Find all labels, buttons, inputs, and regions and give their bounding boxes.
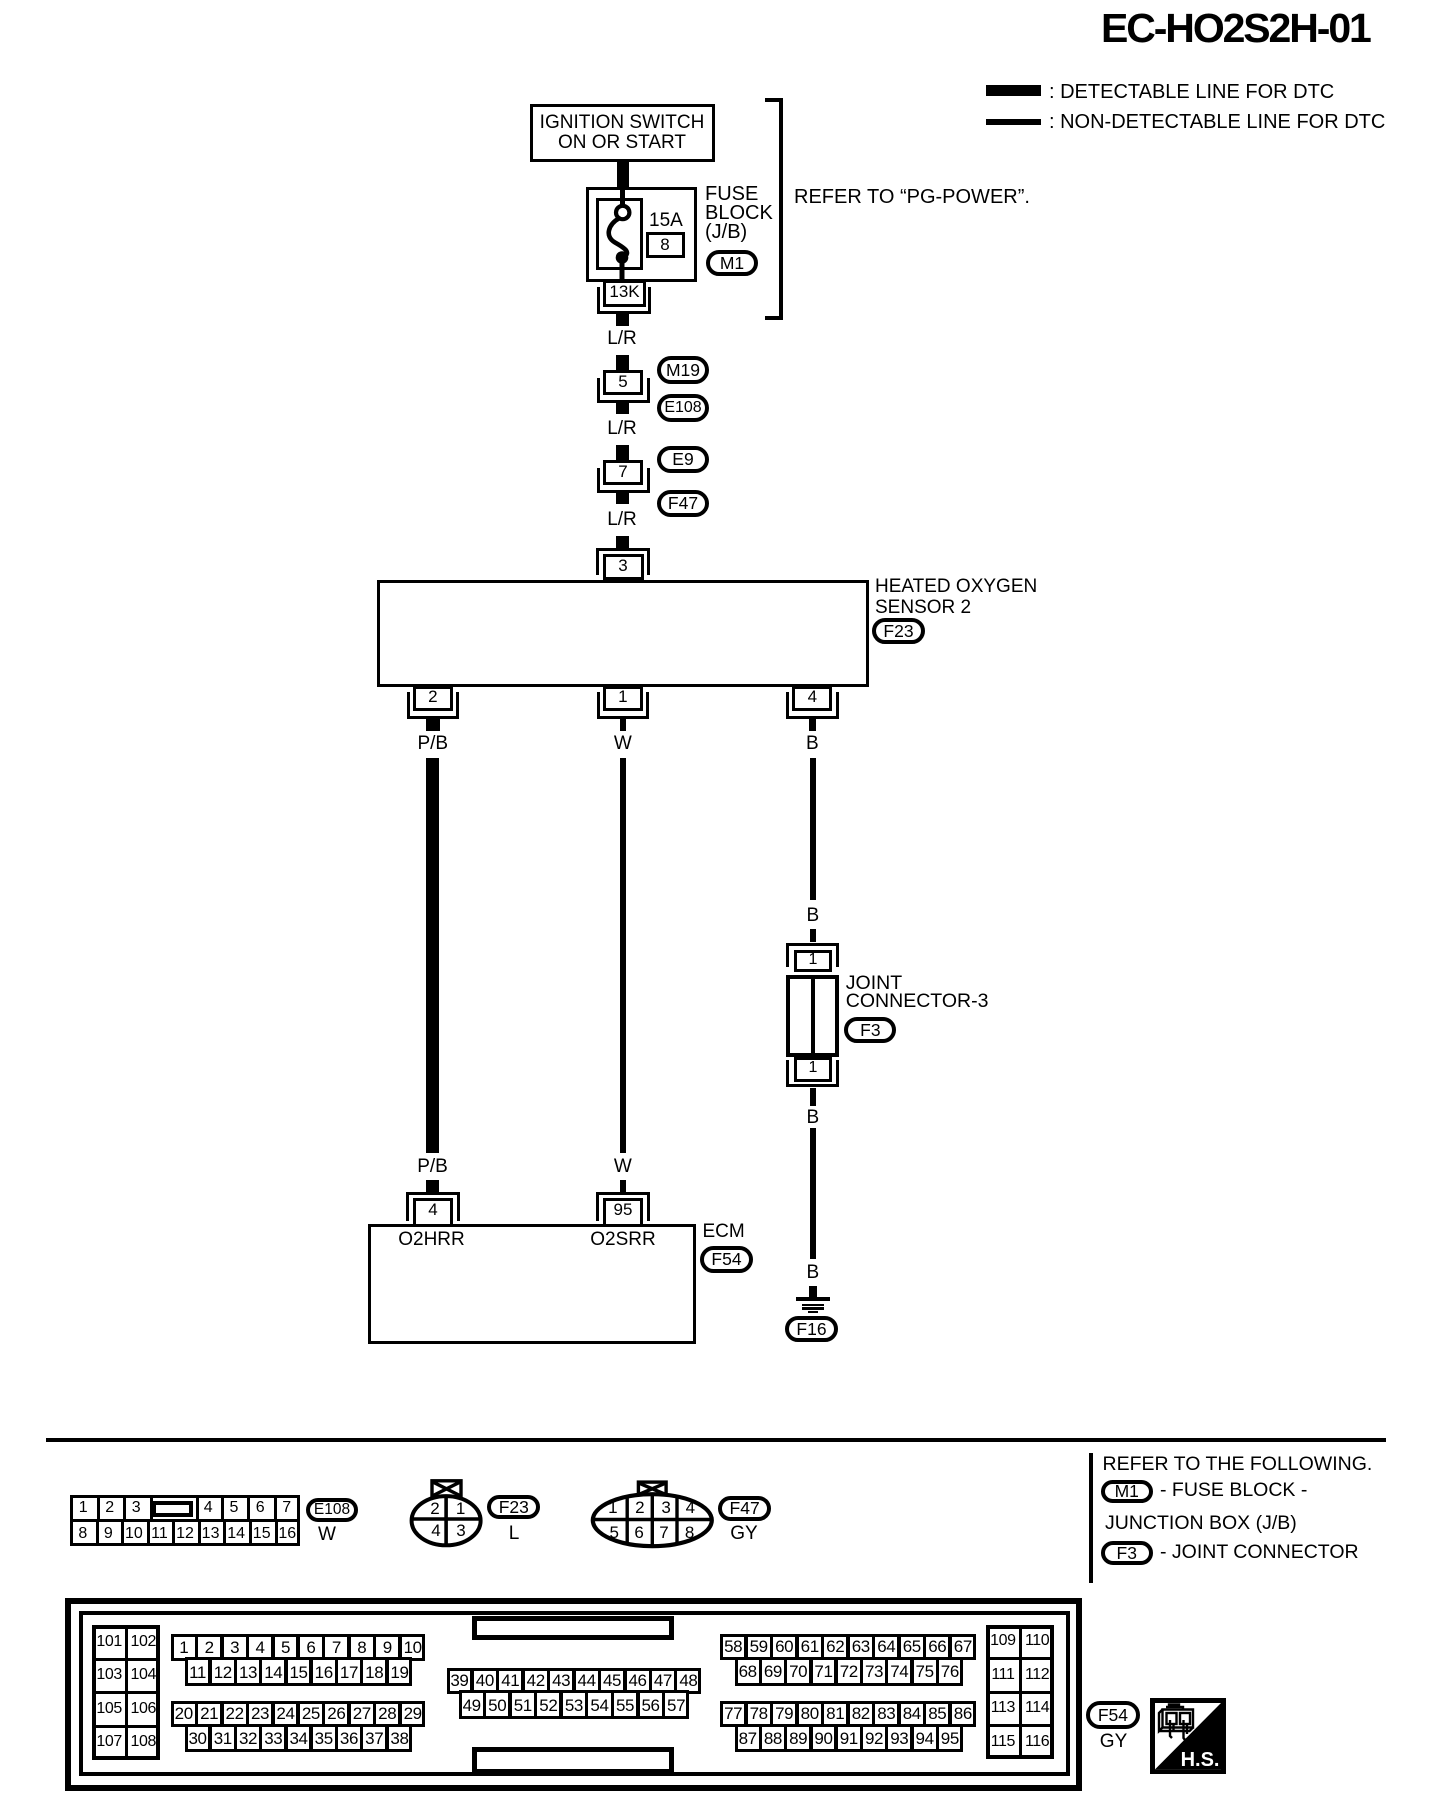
E108 pin numbers bottom row <box>78 1526 87 1542</box>
ground symbol bar4 <box>808 1311 818 1314</box>
fuse block label line2 <box>705 203 773 223</box>
F47 pin 1 <box>608 1499 617 1516</box>
refer F3 text <box>1160 1543 1359 1563</box>
F47 pin 6 <box>634 1524 643 1541</box>
sensor pin 1 bracket <box>597 692 650 719</box>
ground symbol bar3 <box>802 1307 824 1310</box>
ECM pins 58-67 row <box>720 1634 975 1660</box>
wire stub above ECM pin 4 <box>426 1180 439 1192</box>
E108 blank key cell <box>152 1501 193 1517</box>
svg-text:H.S.: H.S. <box>1181 1749 1220 1771</box>
heated oxygen sensor 2 box F23 <box>377 580 869 688</box>
wire color B <box>806 734 819 753</box>
legend detectable text <box>1049 82 1334 102</box>
connector terminal 3 box <box>603 554 645 580</box>
E108 color W <box>318 1525 336 1544</box>
F47 pin 4 <box>686 1499 695 1516</box>
wire B joint connector to ground <box>810 1128 816 1259</box>
ECM terminal name O2HRR <box>398 1230 465 1249</box>
wire color P/B lower <box>417 1157 448 1176</box>
ignition switch box <box>530 104 715 162</box>
refer to the following text <box>1103 1455 1373 1475</box>
connector oval F23 <box>872 618 925 644</box>
F23 pin 4 <box>431 1522 440 1539</box>
separator line <box>46 1438 1386 1442</box>
H.S. logo <box>1150 1698 1226 1774</box>
refer to PG-POWER text <box>794 187 1030 207</box>
ground symbol bar2 <box>802 1304 824 1307</box>
wire stub above connector 7 <box>616 445 629 461</box>
ECM pins 87-95 row <box>735 1724 963 1752</box>
terminal number 7 <box>618 463 627 480</box>
title EC-HO2S2H-01 <box>1101 8 1370 49</box>
legend non-detectable text <box>1049 112 1385 132</box>
sensor pin 4 bracket <box>786 692 839 719</box>
wire B sensor pin4 down <box>810 758 816 901</box>
ECM pins 49-57 row <box>459 1690 689 1719</box>
ECM pins 109-116 grid <box>986 1625 1054 1759</box>
wire stub below connector 5 <box>616 403 629 414</box>
refer list left rule <box>1089 1453 1093 1583</box>
wire stub below connector 7 <box>616 493 629 504</box>
refer oval F3 <box>1101 1541 1153 1565</box>
ECM pins 1-10 row <box>171 1634 425 1660</box>
joint connector top pin 1 <box>809 952 818 968</box>
wire color L/R 2 <box>607 419 637 438</box>
sensor pin number 2 <box>428 688 437 705</box>
connector 3 bracket <box>596 548 650 575</box>
connector oval E108 <box>657 394 709 422</box>
ECM terminal name O2SRR <box>590 1230 655 1249</box>
ECM pins 77-86 row <box>720 1701 975 1727</box>
connector oval F3 <box>844 1017 896 1043</box>
wire P/B sensor pin2 to ECM (thick) <box>426 758 439 1153</box>
ECM box F54 <box>368 1224 696 1344</box>
ECM connector inner box <box>79 1611 1071 1776</box>
wire stub above ECM pin 95 <box>620 1180 626 1192</box>
ECM pin 4 bracket <box>406 1192 460 1221</box>
oval label E108 <box>306 1498 358 1522</box>
joint connector label line2 <box>846 992 989 1012</box>
wire stub below pin 1 <box>620 719 626 732</box>
ECM label <box>703 1222 745 1241</box>
ground symbol bar1 <box>796 1297 831 1301</box>
wire color B above ground <box>806 1263 819 1282</box>
connector oval F16 (ground) <box>785 1316 838 1343</box>
F23 pin 2 <box>430 1500 439 1517</box>
oval label F54 bottom <box>1086 1701 1140 1729</box>
F47 pin 8 <box>685 1524 694 1541</box>
fuse 15A symbol <box>596 187 643 307</box>
E108 grid bottom row dividers <box>96 1520 99 1545</box>
wire stub below 13K <box>616 314 629 326</box>
F47 pin 5 <box>609 1524 618 1541</box>
sensor label line2 <box>875 598 971 617</box>
wire color W <box>614 734 632 753</box>
joint connector top bracket <box>786 943 839 967</box>
terminal number 3 <box>618 557 627 574</box>
connector oval F54 (ECM) <box>700 1246 753 1273</box>
ECM pins 68-76 row <box>735 1657 963 1687</box>
joint connector bottom terminal 1 box <box>794 1057 832 1082</box>
terminal number 5 <box>618 373 627 390</box>
ignition switch label line2 <box>558 133 686 152</box>
fuse block label line1 <box>705 184 758 204</box>
refer oval M1 <box>1101 1480 1153 1503</box>
connector terminal 13K box <box>603 280 646 307</box>
sensor pin 1 box <box>603 686 643 711</box>
ECM pin number 4 <box>428 1201 437 1218</box>
wire stub below pin 4 <box>809 719 815 732</box>
sensor label line1 <box>875 577 1037 596</box>
fuse block label line3 <box>705 222 747 242</box>
wire stub above connector 5 <box>616 355 629 371</box>
ignition switch label line1 <box>540 113 705 132</box>
sensor pin number 4 <box>808 688 817 705</box>
wire color B above joint connector <box>806 906 819 925</box>
E108 pin numbers top row <box>79 1500 88 1516</box>
joint connector bottom pin 1 <box>809 1060 818 1076</box>
joint connector body F3 <box>786 975 839 1057</box>
wire color L/R 3 <box>607 510 637 529</box>
connector 7 bracket <box>597 468 650 493</box>
connector terminal 5 box <box>603 370 643 395</box>
F23 color L <box>509 1524 520 1543</box>
ECM pin number 95 <box>614 1201 633 1218</box>
F47 pin 3 <box>661 1499 670 1516</box>
F47 pin 2 <box>635 1499 644 1516</box>
ECM pin 95 bracket <box>596 1192 650 1221</box>
fuse block outer box M1 <box>586 187 697 282</box>
oval label F23 <box>487 1495 540 1519</box>
ECM pins 30-38 row <box>185 1724 412 1753</box>
joint connector label line1 <box>846 974 902 994</box>
connector E108 pin grid <box>70 1495 300 1546</box>
fuse number 8 <box>660 236 669 253</box>
ECM connector outer box <box>65 1598 1082 1791</box>
wire stub above ground <box>809 1286 817 1297</box>
fuse block bracket <box>765 98 783 320</box>
oval label F47 <box>718 1496 771 1521</box>
refer junction box text <box>1105 1514 1297 1534</box>
sensor pin number 1 <box>618 688 627 705</box>
wire color W lower <box>614 1157 632 1176</box>
wire color L/R 1 <box>607 329 637 348</box>
wire color P/B <box>417 734 448 753</box>
F47 color GY <box>730 1524 757 1543</box>
legend thin line sample <box>986 119 1041 125</box>
connector oval M1 <box>706 250 758 276</box>
wire stub above connector 3 <box>616 536 629 549</box>
terminal label 13K <box>609 283 639 300</box>
F23 pin 3 <box>456 1522 465 1539</box>
E108 grid middle line <box>70 1519 300 1522</box>
wire stub above joint connector <box>810 929 816 942</box>
connector F47 oval view <box>585 1475 725 1555</box>
joint connector top terminal 1 box <box>794 950 832 972</box>
ECM connector bottom tab <box>472 1747 674 1774</box>
fuse rating 15A <box>649 211 683 230</box>
connector 13K bracket <box>597 287 651 314</box>
sensor pin 2 box <box>413 686 453 711</box>
ECM connector top tab <box>472 1616 674 1641</box>
F47 pin 7 <box>659 1524 668 1541</box>
wire stub below pin 2 <box>426 719 440 732</box>
ECM pin 4 box <box>413 1198 453 1227</box>
wire color B below joint connector <box>806 1108 819 1127</box>
connector oval E9 <box>657 446 709 473</box>
ECM pins 20-29 row <box>171 1701 425 1727</box>
connector terminal 7 box <box>603 460 643 485</box>
ECM pins 11-19 row <box>185 1657 412 1686</box>
refer M1 text <box>1160 1481 1307 1501</box>
F23 pin 1 <box>456 1500 465 1517</box>
E108 grid top row dividers <box>97 1495 100 1520</box>
wire stub below joint connector <box>810 1088 816 1106</box>
sensor pin 2 bracket <box>407 692 460 719</box>
legend thick line sample <box>986 85 1041 96</box>
joint connector center line <box>811 979 815 1053</box>
sensor pin 4 box <box>792 686 832 711</box>
ECM pin 95 box <box>603 1198 643 1227</box>
wire W sensor pin1 to ECM <box>620 758 626 1153</box>
connector oval F47 <box>657 490 709 517</box>
F54 color GY <box>1100 1732 1127 1751</box>
connector F23 round view <box>405 1475 495 1555</box>
fuse number box 8 <box>646 232 685 258</box>
connector 5 bracket <box>597 378 650 403</box>
connector oval M19 <box>657 356 709 384</box>
fuse box inner <box>596 198 643 270</box>
ECM pins 39-48 row <box>447 1668 701 1694</box>
joint connector bottom bracket <box>786 1060 839 1088</box>
ECM pins 101-108 grid <box>92 1625 160 1759</box>
wire ignition to fuse block <box>617 162 629 188</box>
